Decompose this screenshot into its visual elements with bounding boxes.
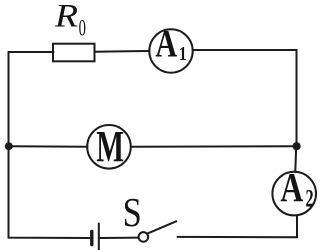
svg-text:M: M [96,123,124,171]
wire M to right junction [131,145,297,148]
wire switch to battery positive plate [100,237,139,239]
wire A1 to top-right corner and down to right junction [193,50,297,146]
svg-text:1: 1 [179,42,187,64]
svg-text:S: S [123,190,142,235]
battery short plate [90,232,93,245]
svg-text:R: R [54,0,79,34]
ammeter A2 [272,172,316,216]
motor M [87,125,131,169]
wire A2 to bottom-right corner to switch gap [178,216,298,238]
wire resistor to A1 [95,50,150,53]
battery long plate [98,224,100,250]
resistor R0 [53,44,95,62]
node right junction [293,142,301,150]
wire left junction to M [9,145,88,148]
ammeter A1 [149,29,192,72]
switch arm [147,221,176,234]
node left junction [5,142,13,150]
wire top-left horizontal [9,51,54,53]
switch pivot [139,232,149,242]
svg-text:A: A [155,22,177,66]
wire battery to bottom-left corner and up left side [9,52,91,238]
wire right junction to A2 [294,146,297,172]
svg-text:0: 0 [79,16,86,41]
svg-text:A: A [280,164,303,210]
svg-text:2: 2 [306,184,314,212]
